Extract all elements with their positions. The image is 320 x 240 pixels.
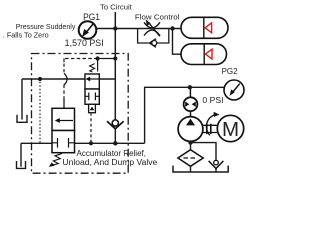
wire bottom line corner down to lower tank (20, 143, 22, 167)
wire PG1 gauge to main line (96, 28, 115, 30)
check valve in flow control bypass (150, 39, 157, 47)
enclosure dash-dot boundary of valve assembly (32, 54, 129, 174)
rotation arrow over motor (206, 114, 215, 135)
accumulator 2 (bottom) (181, 44, 227, 65)
svg-text:M: M (222, 118, 239, 141)
svg-text:1,570 PSI: 1,570 PSI (65, 38, 104, 48)
node junction dot pilot/unload valve (96, 56, 100, 60)
suction strainer / filter (diamond with dashed line) (178, 150, 203, 172)
tank symbol (upper left) (17, 115, 27, 123)
flow meter (circle with opposed triangles) (184, 97, 198, 111)
wire top line to flow control and accumulators (115, 28, 181, 30)
svg-text:Unload, And Dump Valve: Unload, And Dump Valve (62, 158, 157, 167)
adjustable spring below dump valve (53, 154, 63, 166)
wire drain line (dotted) down to bottom line (39, 79, 41, 143)
node junction dot at accumulator branch (170, 26, 174, 30)
svg-text:PG2: PG2 (222, 67, 238, 76)
wire unload valve drain (dashed) down to bottom line (90, 113, 92, 144)
node junction dot drain tap (38, 77, 42, 81)
check valve at reservoir (right) (209, 160, 224, 172)
wire left tank drop (21, 79, 23, 120)
wire bypass loop of flow control (138, 29, 169, 44)
svg-text:. Falls To Zero: . Falls To Zero (3, 31, 49, 40)
node junction dot unload drain / bottom line (89, 141, 93, 145)
flow control valve (adjustable restrictor) (144, 22, 160, 36)
wire pilot line (dashed) from main line to unload valve (64, 58, 98, 60)
node junction dot check valve / bottom line (113, 141, 117, 145)
wire bottom feed line (21, 142, 145, 144)
pressure gauge PG2 (224, 80, 244, 100)
coupling / shaft between pump and motor (203, 124, 217, 134)
spring on top of unload valve (90, 64, 95, 72)
blocked ports in bottom square (52, 138, 75, 148)
node junction dot pump suction (188, 140, 192, 144)
tank symbol (lower left) (17, 161, 26, 168)
pump P1 (circle with solid up triangle) (178, 117, 203, 142)
svg-text:Accumulator Relief,: Accumulator Relief, (77, 149, 147, 158)
wire unload valve flow line to tank (left) and to main line (right) (22, 78, 115, 80)
check valve on main line (107, 120, 124, 143)
arrow flow path in top square pointing left (87, 78, 100, 80)
wire branch down to accumulator 2 (173, 29, 182, 55)
wire flow meter to pump (190, 111, 192, 118)
wire pilot line (dashed) down to dump valve with hop over flow line (63, 59, 65, 63)
svg-text:0 PSI: 0 PSI (202, 96, 223, 105)
electric motor M1 (217, 115, 243, 141)
wire down to flow meter (189, 87, 191, 97)
node junction dot pump column / gauge line (188, 85, 192, 89)
svg-text:To Circuit: To Circuit (100, 3, 133, 12)
node junction dot pilot/main (113, 56, 117, 60)
svg-text:PG1: PG1 (83, 12, 100, 22)
reservoir / tank (bottom right) (173, 166, 228, 172)
wire pump line to PG2 (190, 86, 225, 88)
dump valve U2 (2-position, pilot operated, spring return) (49, 108, 75, 167)
node junction dot at main line and gauge/flow-control line (113, 26, 117, 30)
svg-text:Pressure Suddenly: Pressure Suddenly (16, 22, 76, 31)
arrow flow path in top square pointing left (56, 120, 73, 122)
wire feed riser to pump line (145, 87, 190, 143)
pilot box below with triangle (89, 104, 96, 112)
pressure gauge PG1 (79, 21, 97, 39)
blocked ports in bottom square (85, 93, 99, 101)
accumulator 1 (top) (181, 17, 228, 38)
wire pump to suction junction and right to check valve (191, 141, 217, 160)
wire pilot stub down to unload valve top (97, 59, 99, 72)
unload valve U1 (2-position, spring/pilot) (85, 64, 99, 113)
svg-text:Flow Control: Flow Control (135, 12, 180, 21)
wire main vertical line from To Circuit down to check valve (114, 12, 116, 120)
